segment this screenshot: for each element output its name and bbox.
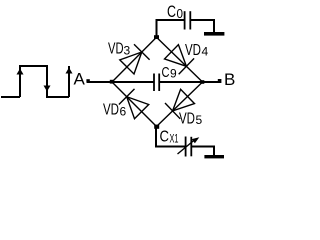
- svg-text:5: 5: [196, 113, 203, 127]
- svg-text:C: C: [167, 2, 176, 21]
- wire C0 right plate to ground: [191, 20, 214, 32]
- wire bottom vertex down and to Cx1: [156, 127, 185, 147]
- wire right vertex to node B: [203, 81, 220, 83]
- capacitor C9: [154, 74, 159, 92]
- svg-text:VD: VD: [185, 42, 201, 59]
- terminal square at node A: [86, 79, 89, 83]
- wire node A to bridge left vertex: [87, 81, 112, 83]
- arrowhead up on rising edge 2: [66, 68, 73, 74]
- capacitor C0: [185, 11, 191, 29]
- svg-text:6: 6: [120, 105, 127, 119]
- diode VD3: [120, 44, 150, 74]
- wire left vertex to C9 left plate: [112, 81, 154, 83]
- wire input square-wave falling edge: [46, 65, 48, 97]
- wire top vertex up and to C0: [157, 20, 185, 37]
- wire bridge arm left-bottom (VD6 arm): [112, 82, 157, 127]
- diode VD6: [119, 89, 149, 119]
- svg-text:4: 4: [202, 45, 209, 59]
- wire Cx1 right plate to ground: [192, 147, 214, 156]
- svg-text:A: A: [74, 70, 86, 89]
- arrowhead up on rising edge 1: [17, 69, 24, 75]
- svg-text:C: C: [162, 64, 170, 81]
- wire input square-wave rising edge 1: [19, 65, 21, 97]
- svg-text:0: 0: [177, 6, 184, 21]
- variable capacitor arrow on Cx1: [178, 140, 196, 155]
- ground bar bottom: [204, 155, 224, 158]
- wire bridge arm bottom-right (VD5 arm): [157, 82, 203, 127]
- svg-text:X1: X1: [170, 132, 179, 146]
- wire input square-wave high segment: [19, 65, 47, 67]
- svg-text:VD: VD: [103, 102, 119, 119]
- diode VD5: [165, 89, 195, 119]
- svg-text:9: 9: [170, 67, 177, 81]
- junction dot top vertex: [154, 35, 159, 39]
- terminal square at node B: [218, 79, 222, 83]
- wire input square-wave rising edge 2: [68, 66, 70, 97]
- wire input square-wave low segment 2: [46, 96, 69, 98]
- junction dot left vertex: [110, 80, 114, 84]
- svg-text:B: B: [224, 70, 235, 89]
- svg-text:VD: VD: [108, 41, 124, 58]
- capacitor Cx1: [186, 137, 192, 157]
- wire input square-wave low segment 1: [1, 96, 20, 98]
- junction dot bottom vertex: [154, 125, 159, 129]
- arrowhead down on falling edge: [44, 86, 51, 92]
- diode VD4: [165, 45, 195, 75]
- svg-text:3: 3: [124, 44, 131, 58]
- wire bridge arm left-top (VD3 arm): [112, 37, 157, 82]
- svg-text:C: C: [160, 129, 170, 146]
- svg-text:VD: VD: [179, 111, 195, 128]
- ground bar top: [204, 32, 224, 36]
- wire C9 right plate to right vertex: [160, 81, 203, 83]
- wire bridge arm top-right (VD4 arm): [157, 37, 203, 82]
- junction dot right vertex: [200, 80, 204, 84]
